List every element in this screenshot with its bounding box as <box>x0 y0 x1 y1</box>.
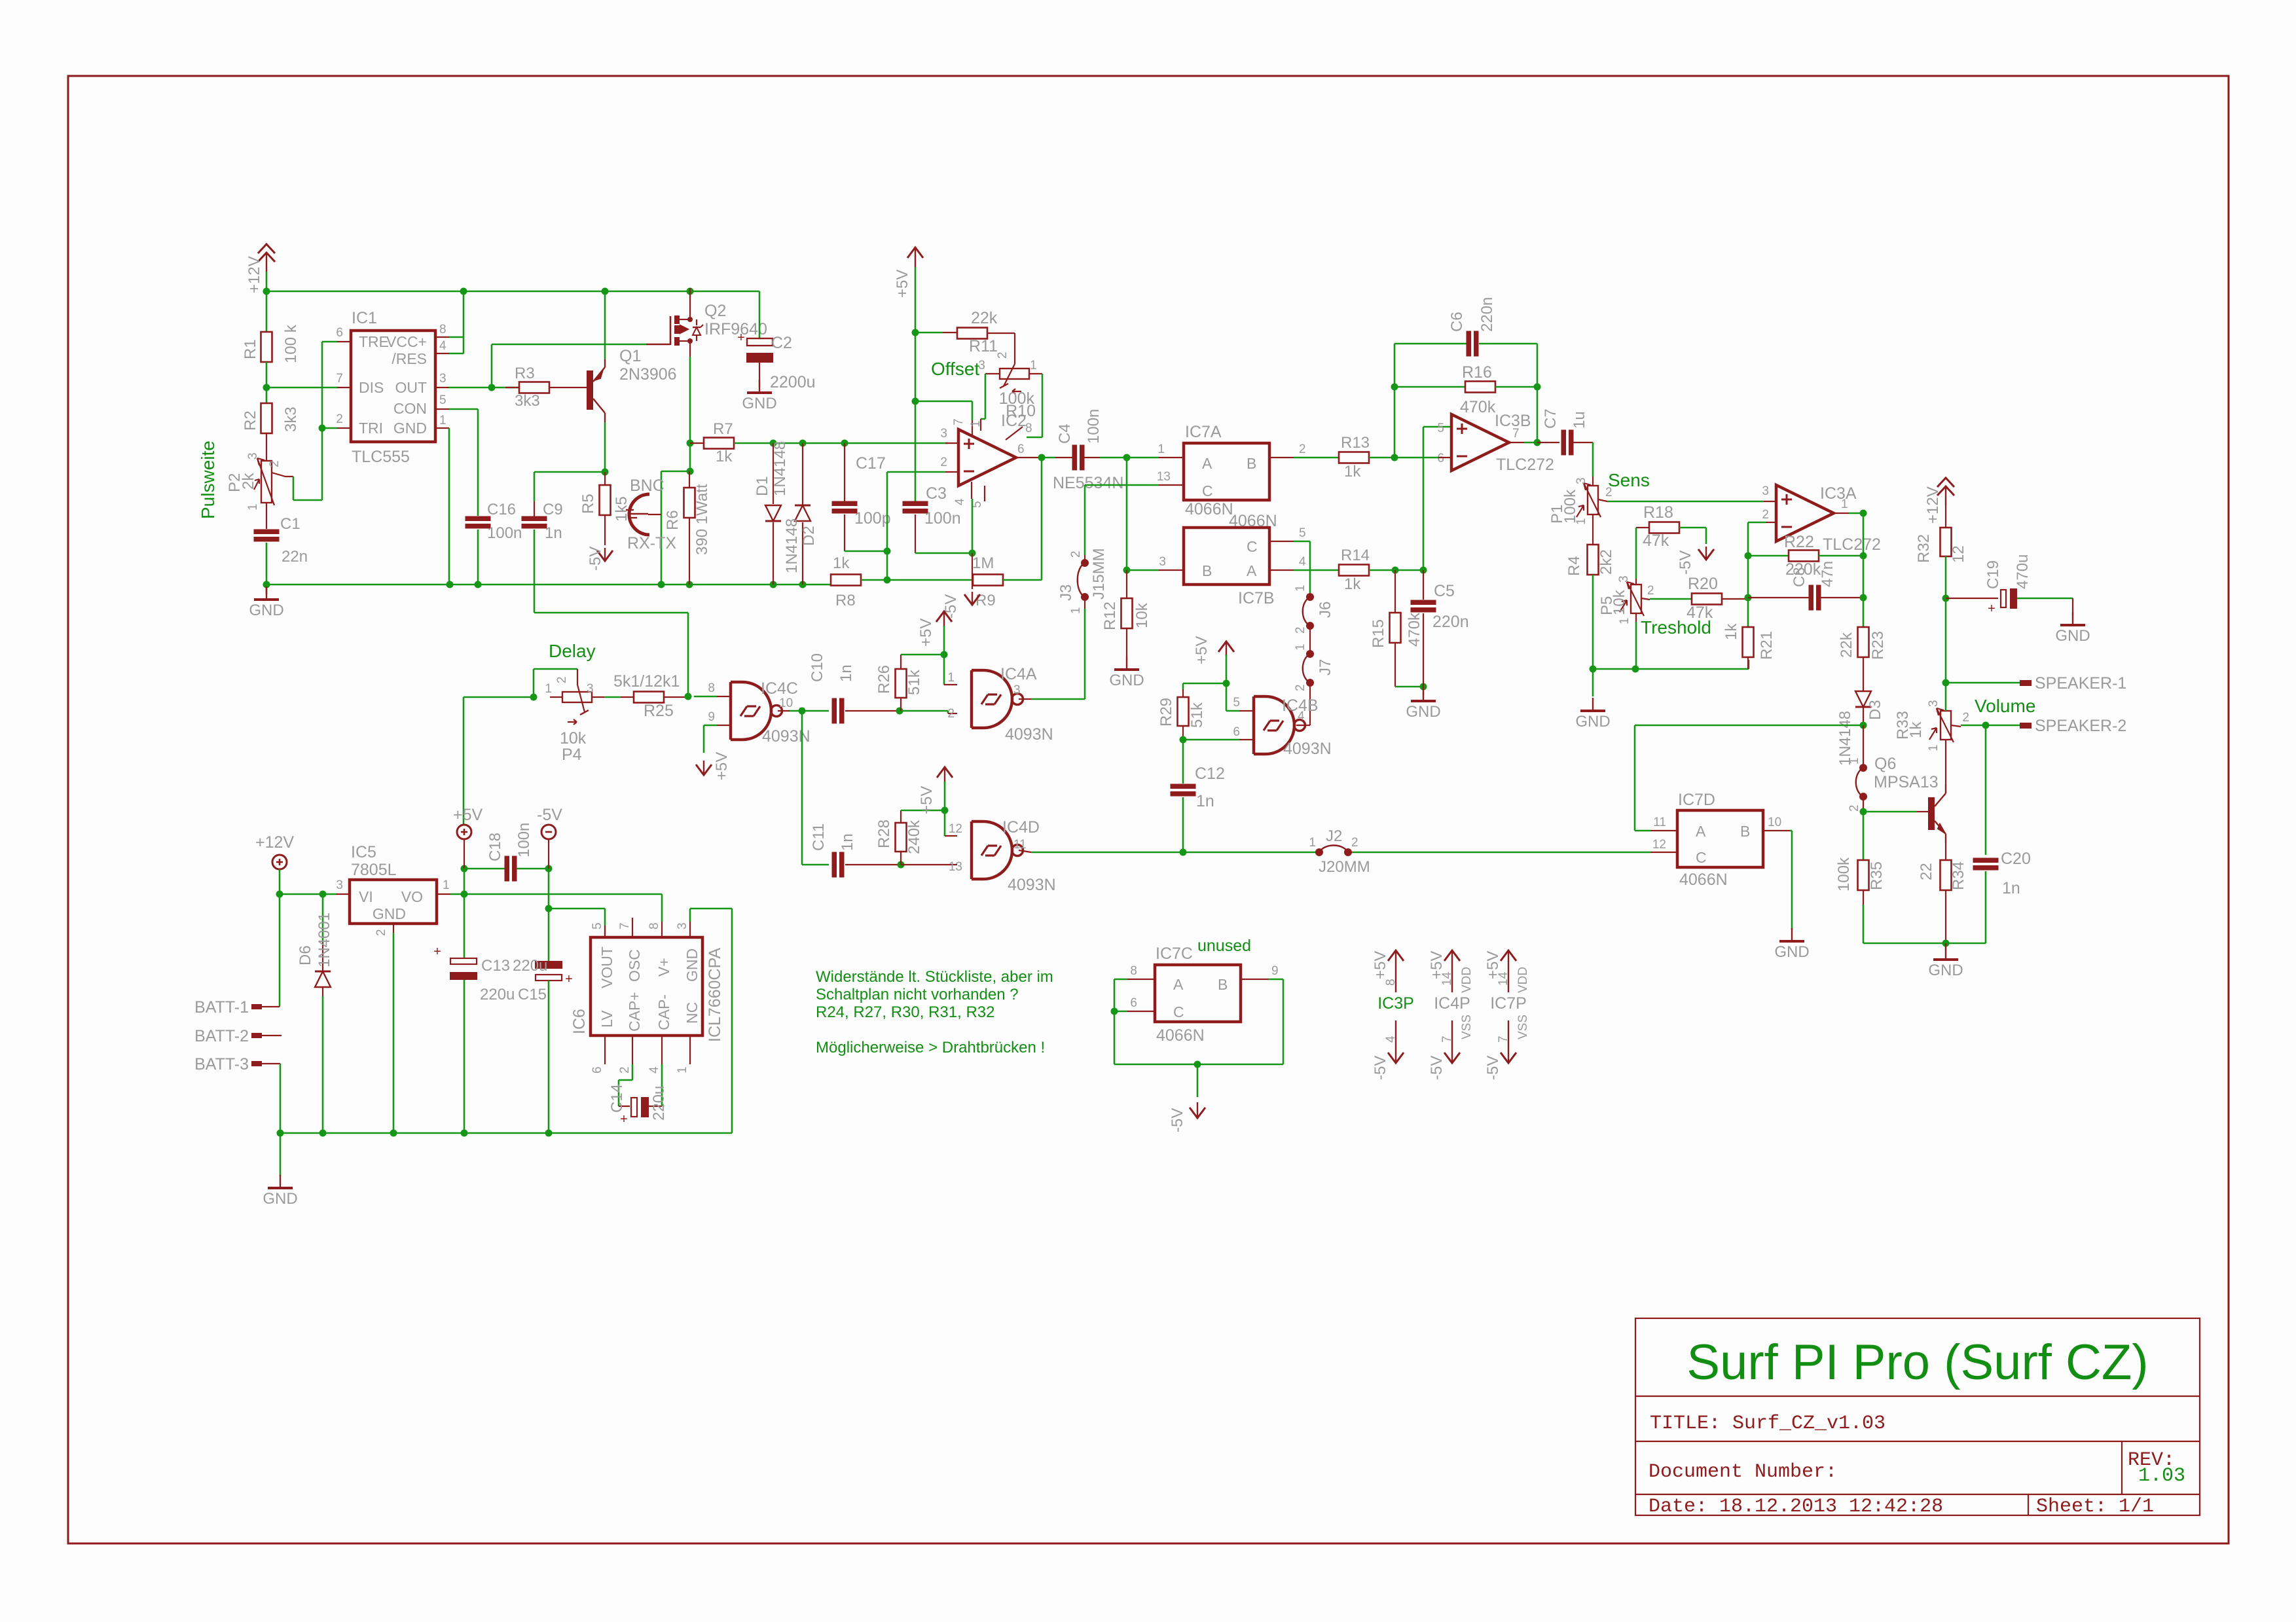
svg-text:22: 22 <box>1918 863 1935 880</box>
svg-text:C11: C11 <box>810 823 828 851</box>
svg-text:22n: 22n <box>282 548 308 566</box>
svg-text:GND: GND <box>1774 943 1809 961</box>
svg-text:3: 3 <box>246 452 260 460</box>
resistor R32 12 <box>1941 528 1952 556</box>
wire R12 node to IC7B pin3 <box>1127 569 1159 571</box>
svg-text:8: 8 <box>1130 964 1137 978</box>
svg-text:/RES: /RES <box>392 350 427 367</box>
svg-text:V+: V+ <box>655 958 672 977</box>
wire +5V circle node <box>464 869 465 894</box>
svg-text:J7: J7 <box>1317 659 1334 676</box>
svg-text:6: 6 <box>1017 442 1025 456</box>
svg-text:TRI: TRI <box>359 420 383 437</box>
wire OUT to Q2 gate drive <box>491 344 493 387</box>
ground under C2 <box>759 380 760 393</box>
svg-text:VSS: VSS <box>1460 1015 1474 1039</box>
svg-text:R18: R18 <box>1643 503 1673 522</box>
svg-text:22k: 22k <box>1838 632 1855 658</box>
feedback resistor R16 470k <box>1394 387 1396 458</box>
svg-text:3: 3 <box>1927 700 1941 707</box>
svg-text:1n: 1n <box>837 664 855 682</box>
resistor R7 <box>690 442 704 444</box>
wire IC7C pin6 <box>1111 1008 1118 1015</box>
svg-text:C1: C1 <box>280 515 301 533</box>
svg-text:8: 8 <box>1025 422 1032 435</box>
capacitor C4 100n <box>1055 457 1072 458</box>
svg-text:4093N: 4093N <box>762 727 811 746</box>
wire R33 pin3 to speaker1 node <box>1945 683 1947 711</box>
svg-text:-5V: -5V <box>1484 1056 1502 1080</box>
svg-text:R23: R23 <box>1869 631 1887 660</box>
svg-text:5: 5 <box>591 922 604 929</box>
svg-text:R2: R2 <box>242 410 259 431</box>
ground under C5 <box>1423 687 1424 695</box>
svg-text:B: B <box>1202 562 1212 579</box>
diode D3 1N4148 <box>1855 691 1871 707</box>
svg-text:1u: 1u <box>1571 411 1588 429</box>
ground symbol under C1 <box>266 585 268 594</box>
bnc connector RX-TX <box>629 494 649 535</box>
svg-text:-5V: -5V <box>1169 1108 1186 1132</box>
capacitor C12 1n <box>1171 784 1196 789</box>
analog switch IC7A 4066N <box>1184 443 1269 500</box>
svg-text:2k: 2k <box>240 473 257 490</box>
node Q6 base <box>1863 797 1864 812</box>
svg-text:J15MM: J15MM <box>1090 548 1108 600</box>
svg-text:IC4D: IC4D <box>1002 818 1040 837</box>
svg-text:+: + <box>737 331 745 345</box>
svg-text:2: 2 <box>374 929 388 936</box>
wire IC3A minus input <box>1766 522 1776 523</box>
svg-text:2: 2 <box>618 1066 632 1073</box>
svg-text:Möglicherweise > Drahtbrücken: Möglicherweise > Drahtbrücken ! <box>816 1039 1045 1056</box>
svg-text:47k: 47k <box>1686 604 1713 622</box>
svg-text:Sheet: 1/1: Sheet: 1/1 <box>2036 1496 2154 1518</box>
svg-text:CON: CON <box>393 400 427 417</box>
svg-text:8: 8 <box>439 323 446 336</box>
svg-text:100n: 100n <box>487 524 522 542</box>
capacitor C11 1n <box>802 864 829 866</box>
svg-text:Document Number:: Document Number: <box>1649 1461 1837 1483</box>
wire to C10 <box>802 710 829 712</box>
svg-text:VOUT: VOUT <box>598 946 615 988</box>
svg-text:1k: 1k <box>1907 721 1925 738</box>
svg-text:GND: GND <box>1928 962 1963 979</box>
wire P2 wiper to TRI net <box>272 473 293 477</box>
svg-text:GND: GND <box>249 602 283 619</box>
wire R6 to gnd rail <box>689 518 690 585</box>
svg-text:C13: C13 <box>481 957 510 975</box>
supply -5V below R5 <box>604 515 606 545</box>
wire R10 pin3 to pin1 stub of opamp <box>985 373 1000 374</box>
voltage regulator IC5 7805L <box>350 880 437 924</box>
svg-text:2: 2 <box>336 412 343 426</box>
wire IC7A pin2 out <box>1269 457 1294 458</box>
wire C19 to gnd <box>2072 598 2073 615</box>
svg-text:R25: R25 <box>644 702 674 720</box>
svg-text:9: 9 <box>708 710 715 724</box>
wire C1 to GND rail <box>266 543 268 585</box>
wire R28 top to +5V node <box>900 810 902 823</box>
wire IC7D pin10 to gnd <box>1763 830 1790 831</box>
diode D6 1N4001 <box>322 894 324 943</box>
svg-text:GND: GND <box>742 395 776 412</box>
svg-text:+12V: +12V <box>255 833 294 852</box>
svg-text:R32: R32 <box>1915 534 1933 563</box>
svg-text:VDD: VDD <box>1516 967 1530 993</box>
pin SPEAKER-2 <box>2020 723 2032 729</box>
svg-text:A: A <box>1202 455 1212 472</box>
wire R25 to IC4C pin8 node <box>664 696 688 698</box>
svg-text:14: 14 <box>1440 971 1454 986</box>
wire R18 right to -5V <box>1679 527 1706 529</box>
wire Q6 emitter to R34 <box>1945 843 1946 860</box>
svg-text:+: + <box>620 1112 628 1126</box>
svg-text:Q1: Q1 <box>619 347 641 365</box>
svg-text:10k: 10k <box>1133 602 1151 628</box>
wire R2 to P2 <box>266 433 267 461</box>
svg-text:IC4P: IC4P <box>1434 994 1470 1013</box>
wire P2 to C1 <box>266 503 267 529</box>
svg-text:3: 3 <box>978 359 985 372</box>
svg-text:TITLE: Surf_CZ_v1.03: TITLE: Surf_CZ_v1.03 <box>1650 1413 1886 1435</box>
svg-text:VDD: VDD <box>1460 967 1474 993</box>
node drain R7 <box>687 440 694 447</box>
svg-text:GND: GND <box>2055 627 2090 645</box>
svg-text:3: 3 <box>1617 575 1631 583</box>
svg-text:6: 6 <box>1130 996 1137 1010</box>
potentiometer R10 100k <box>1000 369 1029 379</box>
svg-text:2: 2 <box>1647 584 1654 598</box>
svg-text:4066N: 4066N <box>1679 871 1728 889</box>
svg-text:4093N: 4093N <box>1005 725 1053 744</box>
svg-text:IC5: IC5 <box>351 843 376 861</box>
wire C11 node to IC4D pin13 <box>901 864 957 865</box>
svg-text:C8: C8 <box>1791 567 1808 587</box>
svg-text:1k: 1k <box>833 554 850 572</box>
wire IC7C pin8 <box>1127 979 1155 980</box>
svg-text:J3: J3 <box>1057 585 1075 601</box>
svg-text:2: 2 <box>1962 711 1969 725</box>
svg-text:3: 3 <box>1762 484 1769 498</box>
svg-text:+5V: +5V <box>894 270 911 298</box>
svg-text:R6: R6 <box>664 510 682 530</box>
capacitor C20 1n <box>1973 858 1999 863</box>
op-amp timer IC1 TLC555 <box>351 331 435 442</box>
capacitor C10 1n <box>832 698 837 724</box>
wire C12 to J2 net <box>1182 797 1184 852</box>
svg-text:R14: R14 <box>1341 547 1370 564</box>
wire D3 node to IC7D pin11 <box>1635 725 1863 727</box>
jumper J2 J20MM <box>1315 848 1323 856</box>
wire IC4C pin9 to +5V <box>717 725 731 726</box>
svg-text:IC4A: IC4A <box>1000 665 1037 683</box>
svg-text:3: 3 <box>676 922 689 929</box>
diode D2 1N4148 <box>802 443 803 505</box>
svg-text:R12: R12 <box>1101 602 1119 630</box>
wire IC7D pin12 from J2 <box>1650 852 1677 853</box>
ground rail power section <box>280 1132 732 1134</box>
wire BATT-3 to gnd rail <box>280 1064 282 1133</box>
svg-text:+: + <box>1988 602 1995 616</box>
supply -5V right of R18 <box>1698 549 1714 560</box>
svg-text:10: 10 <box>779 696 793 710</box>
svg-text:GND: GND <box>263 1190 297 1208</box>
svg-text:Date: 18.12.2013 12:42:28: Date: 18.12.2013 12:42:28 <box>1649 1496 1943 1518</box>
wire IC4A output to J3 net <box>1019 698 1031 700</box>
svg-text:+: + <box>433 945 441 959</box>
wire TRE-TRI tie <box>321 342 323 428</box>
capacitor C1 <box>254 530 280 535</box>
svg-text:+12V: +12V <box>246 256 263 293</box>
node +12V junctions <box>263 288 270 295</box>
wire P4 pin1 lead <box>550 696 562 698</box>
svg-text:NC: NC <box>683 1002 701 1024</box>
svg-text:R15: R15 <box>1370 619 1387 648</box>
svg-text:IRF9640: IRF9640 <box>704 320 767 338</box>
svg-text:Volume: Volume <box>1975 696 2035 716</box>
svg-text:1: 1 <box>246 503 260 511</box>
svg-text:R21: R21 <box>1758 631 1776 660</box>
jumper below D3 <box>1863 725 1864 768</box>
potentiometer P1 100k <box>1592 477 1594 486</box>
svg-text:+5V: +5V <box>713 752 731 780</box>
svg-text:1: 1 <box>443 878 450 892</box>
svg-text:8: 8 <box>1384 979 1398 986</box>
wire drain to R6 top <box>689 443 691 471</box>
svg-text:7: 7 <box>336 372 343 386</box>
capacitor C14 220u flying <box>632 1064 634 1080</box>
svg-text:Schaltplan nicht vorhanden ?: Schaltplan nicht vorhanden ? <box>816 986 1019 1003</box>
wire speaker2 node to C20 <box>1985 725 1987 855</box>
svg-text:J6: J6 <box>1317 602 1334 618</box>
wire IC4B pin5 to +5V <box>1239 710 1254 712</box>
svg-text:2k2: 2k2 <box>1597 549 1615 575</box>
svg-text:1: 1 <box>1618 617 1631 624</box>
svg-text:1: 1 <box>1575 518 1588 525</box>
transistor Q6 MPSA13 <box>1928 797 1935 830</box>
svg-text:Offset: Offset <box>931 359 979 379</box>
svg-text:1: 1 <box>1294 585 1307 592</box>
svg-text:D6: D6 <box>297 945 314 965</box>
svg-text:470k: 470k <box>1460 398 1496 416</box>
svg-text:7805L: 7805L <box>351 861 397 879</box>
svg-text:TLC555: TLC555 <box>352 448 410 466</box>
svg-text:10: 10 <box>1768 816 1781 829</box>
svg-text:R5: R5 <box>579 494 597 514</box>
resistor R26 51k <box>896 669 907 698</box>
svg-text:2: 2 <box>555 676 569 683</box>
svg-text:+5V: +5V <box>1193 636 1211 664</box>
svg-text:4066N: 4066N <box>1185 500 1233 518</box>
svg-text:100n: 100n <box>1085 409 1102 444</box>
svg-text:4: 4 <box>439 339 446 353</box>
pin stubs IC2 balance and power <box>915 401 972 403</box>
svg-text:-5V: -5V <box>1677 550 1694 575</box>
svg-text:5: 5 <box>439 393 446 407</box>
svg-text:1k: 1k <box>1722 623 1740 640</box>
wire C3 bottom to -5V node <box>915 552 972 554</box>
potentiometer P5 10k <box>1631 585 1641 613</box>
wire IC2 output <box>1016 457 1042 458</box>
wire IC4D output to J2 <box>1019 850 1031 852</box>
svg-text:11: 11 <box>1013 838 1027 852</box>
wire C9 bottom to delay line <box>534 530 536 613</box>
jumper J7 <box>1309 626 1311 654</box>
svg-text:IC6: IC6 <box>570 1009 589 1034</box>
wire C2 to gnd <box>759 363 760 387</box>
svg-text:NE5534N: NE5534N <box>1053 474 1123 492</box>
wire R7 to D1 D2 node <box>734 442 948 444</box>
svg-text:1: 1 <box>1848 757 1861 765</box>
svg-text:7: 7 <box>1440 1036 1454 1043</box>
op-amp IC3B TLC272 <box>1451 414 1509 471</box>
wire R14 to C5 node <box>1369 569 1423 571</box>
feedback capacitor C6 220n <box>1394 344 1396 387</box>
svg-text:3k3: 3k3 <box>282 406 300 432</box>
svg-text:7: 7 <box>952 418 966 425</box>
ground under R12 <box>1126 628 1127 657</box>
svg-text:BNC: BNC <box>630 477 665 495</box>
potentiometer R33 1k volume <box>1941 711 1951 740</box>
svg-text:IC7B: IC7B <box>1238 589 1275 607</box>
svg-text:C4: C4 <box>1056 424 1074 444</box>
supply +5V at IC4A <box>936 611 952 622</box>
svg-text:3: 3 <box>1159 555 1166 569</box>
wire -5V to C15 <box>548 909 550 964</box>
svg-text:R3: R3 <box>515 365 535 382</box>
mosfet Q2 IRF9640 <box>670 316 672 345</box>
svg-text:A: A <box>1247 562 1257 579</box>
resistor R18 47k <box>1649 522 1679 533</box>
svg-text:3: 3 <box>587 682 594 696</box>
svg-text:BATT-3: BATT-3 <box>194 1055 249 1073</box>
svg-text:R8: R8 <box>835 592 856 609</box>
wire Q6 collector to R33 <box>1945 740 1946 784</box>
svg-text:IC7P: IC7P <box>1490 994 1527 1013</box>
svg-text:5: 5 <box>1233 696 1240 710</box>
wire R13 to IC3B minus <box>1369 457 1394 459</box>
svg-text:1k: 1k <box>1344 575 1361 593</box>
svg-text:C12: C12 <box>1195 765 1225 783</box>
svg-text:1n: 1n <box>839 833 856 851</box>
resistor R28 240k <box>896 823 907 852</box>
node C10 R26 <box>896 708 903 715</box>
wire +5V node to IC4D pin12 <box>944 810 946 836</box>
svg-text:390 1Watt: 390 1Watt <box>693 484 711 555</box>
svg-text:4066N: 4066N <box>1156 1026 1205 1045</box>
svg-text:+5V: +5V <box>918 786 936 814</box>
svg-text:2: 2 <box>1605 486 1613 499</box>
svg-text:220u: 220u <box>480 986 515 1003</box>
node R29 bottom <box>1182 726 1184 740</box>
analog switch IC7C 4066N unused <box>1155 965 1241 1022</box>
wire R33 wiper to speaker2 <box>1951 725 1961 727</box>
wire collector node to C9 <box>534 471 605 473</box>
wire +12V rail <box>266 272 268 291</box>
svg-text:R22: R22 <box>1784 533 1814 551</box>
svg-text:1k: 1k <box>1344 463 1361 480</box>
resistor R21 1k <box>1743 627 1754 657</box>
svg-text:47k: 47k <box>1643 532 1669 550</box>
svg-text:+: + <box>565 972 573 986</box>
svg-text:C18: C18 <box>486 833 504 861</box>
svg-text:B: B <box>1740 823 1750 840</box>
svg-text:220u: 220u <box>513 957 547 975</box>
svg-text:C2: C2 <box>771 334 792 352</box>
wire +5V vertical <box>915 267 917 333</box>
svg-text:A: A <box>1173 976 1184 993</box>
capacitor C2 2200u <box>747 338 773 346</box>
wire speaker1 <box>1946 682 2020 684</box>
svg-text:ICL7660CPA: ICL7660CPA <box>706 948 724 1042</box>
svg-text:4066N: 4066N <box>1229 512 1277 530</box>
svg-text:3: 3 <box>1013 683 1021 697</box>
wire Q2 drain down to R7 node <box>689 341 691 357</box>
resistor R29 51k <box>1182 689 1184 697</box>
wire P5 bottom to rail <box>1635 613 1637 622</box>
capacitor C16 <box>465 516 491 522</box>
svg-text:IC3P: IC3P <box>1377 994 1414 1013</box>
svg-text:1: 1 <box>1927 744 1941 751</box>
svg-text:1: 1 <box>969 420 983 427</box>
svg-text:IC7A: IC7A <box>1185 423 1222 441</box>
pin stubs IC6 bottom <box>604 1036 606 1064</box>
resistor R4 2k2 <box>1588 545 1599 575</box>
wire pin5 CON to C16 <box>435 408 449 410</box>
wire IC5 GND pin to rail <box>393 924 394 933</box>
svg-text:IC3A: IC3A <box>1820 484 1857 503</box>
svg-text:VO: VO <box>401 888 423 905</box>
wire R1-R2 node to DIS <box>266 362 268 403</box>
svg-text:100p: 100p <box>854 509 891 528</box>
svg-text:4093N: 4093N <box>1283 740 1332 758</box>
wire pin2 stub IC2 <box>945 471 958 473</box>
svg-text:R28: R28 <box>875 820 893 848</box>
wire R1 top <box>266 291 268 332</box>
wire C4 to IC7A pin1 <box>1100 457 1159 459</box>
wire IC7B pin5 <box>1269 541 1294 542</box>
svg-text:unused: unused <box>1197 937 1251 955</box>
svg-text:220u: 220u <box>650 1086 668 1121</box>
svg-text:1N4148: 1N4148 <box>1836 711 1854 766</box>
svg-text:OUT: OUT <box>395 379 427 396</box>
svg-text:D3: D3 <box>1867 700 1884 720</box>
svg-text:3: 3 <box>439 372 446 386</box>
svg-text:2: 2 <box>1069 550 1083 558</box>
svg-text:2N3906: 2N3906 <box>619 365 677 384</box>
svg-text:2: 2 <box>268 460 282 467</box>
potentiometer P2 <box>261 461 272 503</box>
power symbol IC7P <box>1501 950 1516 961</box>
svg-text:1N4001: 1N4001 <box>316 912 333 967</box>
svg-text:TLC272: TLC272 <box>1823 535 1881 554</box>
ground rail left <box>266 584 831 586</box>
svg-text:100n: 100n <box>515 823 533 857</box>
wire R29 node to IC4B pin6 <box>1183 739 1239 741</box>
svg-text:R24, R27, R30, R31, R32: R24, R27, R30, R31, R32 <box>816 1003 994 1021</box>
wire C7 to P1 <box>1592 442 1594 477</box>
svg-text:8: 8 <box>647 922 661 929</box>
ground under Q6 <box>1945 943 1946 950</box>
wire R18 left to P5 pin3 <box>1636 527 1649 528</box>
wire IC6 gnd pin3 to rail <box>689 909 691 922</box>
wire C4 node down to R12 node <box>1126 458 1128 570</box>
svg-text:1: 1 <box>1309 836 1316 850</box>
wire P4 wiper tie <box>533 669 535 697</box>
nand gate IC4A 4093N <box>972 670 1012 728</box>
svg-text:6: 6 <box>1437 452 1444 465</box>
